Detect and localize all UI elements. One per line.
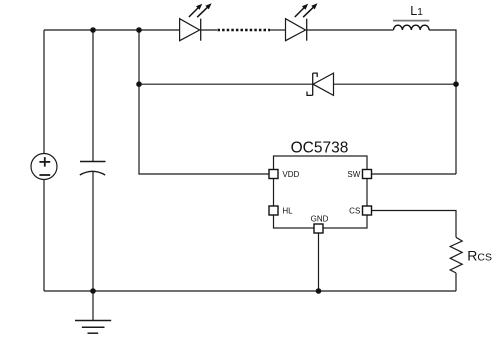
- node junction dot top second vertical: [136, 27, 142, 33]
- wire dashed LED-string continuation: [218, 29, 271, 32]
- wire left vertical rail upper: [43, 30, 45, 154]
- wire SW pin to right rail: [372, 173, 457, 175]
- wire bottom rail: [44, 290, 456, 292]
- svg-text:SW: SW: [347, 170, 360, 179]
- wire diode row right segment: [334, 83, 457, 85]
- node junction dot top capacitor: [90, 27, 96, 33]
- svg-text:GND: GND: [311, 215, 329, 224]
- wire top rail left segment: [44, 29, 180, 31]
- wire CS pin to resistor: [372, 211, 457, 238]
- LED D1: [180, 3, 212, 40]
- svg-text:OC5738: OC5738: [291, 140, 349, 157]
- inductor L1 bar: [393, 20, 429, 22]
- svg-text:HL: HL: [282, 206, 293, 215]
- wire before LED2: [270, 29, 286, 31]
- wire capacitor branch lower: [92, 172, 94, 292]
- schottky diode D3: [307, 73, 334, 95]
- resistor Rcs: [450, 237, 462, 273]
- node junction dot diode row right: [453, 81, 459, 87]
- svg-text:CS: CS: [349, 206, 360, 215]
- wire left vertical rail lower: [43, 180, 45, 292]
- wire LED2 to inductor: [307, 29, 394, 31]
- pin SW: [363, 170, 372, 179]
- IC U1 OC5738 box: [274, 156, 368, 228]
- pin HL: [269, 206, 278, 215]
- capacitor C1: [80, 162, 106, 176]
- inductor L1: [394, 25, 430, 30]
- pin VDD: [269, 170, 278, 179]
- node junction dot bottom GND stem: [316, 288, 322, 294]
- wire top rail between LED1 and dashes: [201, 29, 217, 31]
- node junction dot bottom capacitor/ground: [90, 288, 96, 294]
- ground symbol: [75, 291, 111, 333]
- wire GND pin stem: [318, 233, 320, 291]
- node junction dot diode row left: [136, 81, 142, 87]
- voltage source V1: [31, 154, 57, 180]
- svg-text:VDD: VDD: [282, 170, 299, 179]
- wire second vertical to VDD: [139, 30, 269, 174]
- svg-text:L1: L1: [410, 4, 423, 18]
- wire inductor to top-right corner and down: [429, 30, 456, 174]
- wire capacitor branch upper: [92, 30, 94, 161]
- LED D2: [286, 3, 318, 40]
- wire diode row left segment: [139, 83, 313, 85]
- pin GND: [314, 224, 323, 233]
- pin CS: [363, 206, 372, 215]
- wire resistor bottom lead: [455, 273, 457, 291]
